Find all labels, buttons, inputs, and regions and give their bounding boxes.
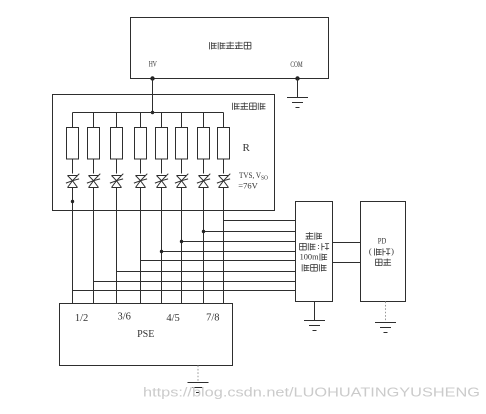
wire decoupling to PD lower: [333, 262, 361, 264]
TVS diode D7: [197, 174, 210, 188]
label R: [243, 142, 251, 154]
svg-text:R: R: [243, 142, 251, 154]
wire coupling bus: [73, 112, 224, 114]
wire resistor R2 to TVS D2: [93, 159, 95, 174]
wire column 4 down to PSE: [140, 188, 142, 304]
svg-text:PD: PD: [378, 236, 387, 246]
svg-text:https://blog.csdn.net/LUOHUATI: https://blog.csdn.net/LUOHUATINGYUSHENG: [143, 386, 480, 400]
TVS diode D6: [175, 174, 188, 188]
label TVS, Vso: [239, 170, 268, 182]
resistor R1: [67, 128, 79, 160]
TVS diode D5: [155, 174, 168, 188]
node HV pin dot: [150, 76, 154, 80]
wire COM down to ground: [297, 79, 299, 98]
pin label 1/2: [75, 313, 88, 324]
label PSE: [137, 329, 154, 340]
svg-text:): ): [391, 246, 394, 256]
ground at PD: [375, 323, 396, 333]
wire branch column 7 to decoupling network: [204, 231, 296, 233]
decoupling network box 去耦网络: [296, 202, 333, 302]
svg-text:(: (: [369, 246, 372, 256]
node junction dot column 6: [180, 240, 183, 243]
wire column 1 down to PSE: [72, 188, 74, 304]
TVS diode D2: [87, 174, 100, 188]
wire bus drop column 3: [116, 113, 118, 128]
pin HV label: [149, 59, 157, 68]
TVS diode D3: [110, 174, 123, 188]
wire column 3 down to PSE: [116, 188, 118, 304]
wire column 2 down to PSE: [93, 188, 95, 304]
TVS diode D1: [66, 174, 79, 188]
svg-text:=76V: =76V: [238, 181, 258, 191]
label PD: [378, 236, 387, 246]
wire branch column 8 to decoupling network: [224, 220, 296, 222]
wire resistor R4 to TVS D4: [140, 159, 142, 174]
svg-text:1/2: 1/2: [75, 313, 88, 324]
wire column 5 down to PSE: [161, 188, 163, 304]
TVS diode D8: [217, 174, 230, 188]
svg-text::: :: [317, 241, 319, 251]
pin label 7/8: [206, 313, 219, 324]
label （模拟）: [369, 246, 394, 256]
wire bus drop column 7: [203, 113, 205, 128]
svg-text:7/8: 7/8: [206, 313, 219, 324]
wire column 6 down to PSE: [181, 188, 183, 304]
label 耦合网络: [232, 102, 265, 110]
wire branch column 4 to decoupling network: [141, 260, 296, 262]
wire bus drop column 1: [72, 113, 74, 128]
wire decoupling to PD upper: [333, 242, 361, 244]
resistor R6: [176, 128, 188, 160]
pin COM label: [290, 60, 302, 69]
svg-text:PSE: PSE: [137, 329, 154, 340]
resistor R8: [218, 128, 230, 160]
wire resistor R1 to TVS D1: [72, 159, 74, 174]
node junction dot column 7: [202, 230, 205, 233]
resistor R4: [135, 128, 147, 160]
wire column 7 down to PSE: [203, 188, 205, 304]
TVS diode D4: [134, 174, 147, 188]
node dot column 1 below TVS: [71, 200, 74, 203]
resistor R3: [111, 128, 123, 160]
svg-text:COM: COM: [290, 60, 302, 69]
label =76V: [238, 181, 258, 191]
wire bus drop column 2: [93, 113, 95, 128]
resistor R2: [88, 128, 100, 160]
wire PSE to ground (dashed): [197, 366, 199, 382]
ground at decoupling network: [304, 321, 325, 331]
wire branch column 6 to decoupling network: [182, 241, 296, 243]
PSE box: [60, 304, 233, 366]
label 耦网线: [302, 264, 326, 271]
label 去耦: [305, 232, 322, 240]
wire resistor R8 to TVS D8: [223, 159, 225, 174]
wire resistor R6 to TVS D6: [181, 159, 183, 174]
node COM pin dot: [295, 76, 299, 80]
wire resistor R7 to TVS D7: [203, 159, 205, 174]
pin label 4/5: [166, 313, 179, 324]
PD load box: [361, 202, 406, 302]
ground at COM: [287, 98, 308, 108]
coupling network box 耦合网络: [53, 95, 275, 211]
surge generator box 浪涌发生器: [131, 18, 329, 79]
svg-text:4/5: 4/5: [166, 313, 179, 324]
resistor R7: [198, 128, 210, 160]
wire branch column 5 to decoupling network: [162, 251, 296, 253]
node junction dot HV/bus: [151, 111, 154, 114]
wire branch column 1 to decoupling network: [73, 290, 296, 292]
wire column 8 down to PSE: [223, 188, 225, 304]
svg-text:100m: 100m: [300, 251, 319, 261]
ground at PSE: [188, 383, 209, 393]
label 网络:如: [300, 241, 330, 251]
wire bus drop column 8: [223, 113, 225, 128]
pin label 3/6: [117, 312, 130, 323]
resistor R5: [156, 128, 168, 160]
wire bus drop column 5: [161, 113, 163, 128]
label 负载: [376, 259, 392, 266]
svg-text:3/6: 3/6: [117, 312, 130, 323]
wire resistor R3 to TVS D3: [116, 159, 118, 174]
wire resistor R5 to TVS D5: [161, 159, 163, 174]
svg-text:HV: HV: [149, 59, 157, 68]
wire branch column 3 to decoupling network: [117, 271, 296, 273]
watermark: [143, 386, 480, 400]
node junction dot column 5: [160, 250, 163, 253]
wire branch column 2 to decoupling network: [94, 281, 296, 283]
wire bus drop column 6: [181, 113, 183, 128]
wire PD to ground (dashed): [385, 302, 387, 322]
label 100m退: [300, 251, 328, 261]
wire decoupling network to ground: [314, 302, 316, 321]
wire HV down to coupling bus: [152, 79, 154, 113]
wire bus drop column 4: [140, 113, 142, 128]
